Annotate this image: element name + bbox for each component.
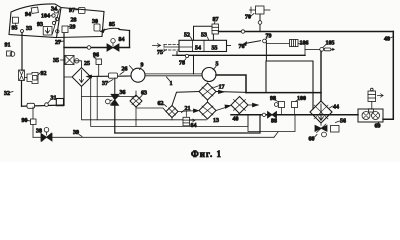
svg-text:75: 75 bbox=[157, 50, 163, 56]
fitting 31 line bbox=[27, 96, 57, 109]
sensor 100 bbox=[292, 96, 307, 108]
rod dashed 75 bbox=[164, 44, 179, 50]
long return vertical bbox=[96, 76, 98, 120]
accumulator 64 bbox=[183, 111, 197, 129]
wire 17-13 bbox=[207, 100, 209, 102]
svg-text:62: 62 bbox=[158, 101, 164, 107]
wire right riser bbox=[129, 31, 131, 48]
solenoid 35 bbox=[53, 56, 79, 65]
svg-text:88: 88 bbox=[271, 119, 277, 125]
svg-text:84: 84 bbox=[119, 37, 125, 43]
svg-text:98: 98 bbox=[270, 96, 276, 102]
svg-text:33: 33 bbox=[26, 26, 32, 32]
heat exchanger 62 bbox=[158, 101, 179, 118]
svg-text:90: 90 bbox=[22, 118, 28, 124]
wire 33 down bbox=[21, 33, 23, 71]
svg-text:55: 55 bbox=[212, 45, 218, 51]
svg-text:70: 70 bbox=[245, 15, 251, 21]
svg-text:Фиг. 1: Фиг. 1 bbox=[191, 149, 222, 159]
wire 63 to 62 bbox=[136, 107, 166, 112]
svg-text:27: 27 bbox=[55, 40, 61, 46]
svg-text:92: 92 bbox=[41, 71, 47, 77]
wire down to 90 bbox=[32, 107, 34, 137]
svg-text:53: 53 bbox=[201, 33, 207, 39]
suction arrow bbox=[87, 75, 92, 78]
valve 36 bbox=[106, 78, 126, 105]
svg-text:32: 32 bbox=[4, 91, 10, 97]
cab right panel bbox=[57, 8, 105, 38]
arrow 75 bbox=[153, 44, 167, 56]
pump 9 bbox=[130, 63, 146, 83]
svg-text:93: 93 bbox=[37, 22, 43, 28]
suction wire to pump bbox=[91, 75, 131, 77]
svg-text:85: 85 bbox=[109, 22, 115, 28]
lever 94 bbox=[25, 7, 38, 18]
svg-text:100: 100 bbox=[297, 96, 306, 102]
main return line bbox=[231, 114, 358, 116]
tank bbox=[248, 115, 295, 132]
valve 60 bbox=[309, 123, 328, 143]
wire 84 line bbox=[64, 47, 130, 49]
return wire L3 bbox=[115, 115, 260, 133]
svg-text:76: 76 bbox=[239, 44, 245, 50]
reservoir rect bbox=[266, 61, 313, 109]
box 97 bbox=[69, 8, 85, 15]
return wire L2 bbox=[91, 76, 248, 126]
wire 76 to reservoir bbox=[265, 41, 267, 61]
switch 85 bbox=[101, 22, 130, 33]
svg-text:13: 13 bbox=[213, 118, 219, 124]
label 27 bbox=[55, 40, 64, 46]
wire 35 to filter 25 bbox=[74, 61, 82, 68]
wire 63 down bbox=[135, 108, 137, 127]
wire 40 out arrow bbox=[248, 103, 258, 107]
wire bottom-left horizontal bbox=[22, 105, 65, 106]
labels 52-55 bbox=[184, 33, 218, 52]
svg-text:96: 96 bbox=[93, 53, 99, 59]
wire 62 to 17 bbox=[172, 92, 199, 106]
pedal 93 bbox=[37, 22, 52, 35]
junction box on wire 27 bbox=[56, 99, 63, 106]
compressor 69 bbox=[358, 88, 383, 129]
svg-text:36: 36 bbox=[120, 90, 126, 96]
svg-text:31: 31 bbox=[51, 96, 57, 102]
svg-text:52: 52 bbox=[184, 33, 190, 39]
governor 70 bbox=[245, 6, 270, 21]
sensor 98 bbox=[270, 96, 285, 108]
svg-text:64: 64 bbox=[191, 123, 197, 129]
node on top line bbox=[241, 30, 244, 33]
filter 13 bbox=[199, 102, 219, 124]
stub 62 bottom bbox=[171, 118, 173, 120]
muffler 56 bbox=[331, 119, 347, 133]
label 32 bbox=[4, 91, 13, 97]
main top line bbox=[219, 31, 394, 33]
wire 78 down bbox=[193, 55, 195, 74]
svg-text:25: 25 bbox=[84, 61, 90, 67]
svg-text:37: 37 bbox=[102, 81, 108, 87]
svg-text:105: 105 bbox=[326, 41, 335, 47]
svg-text:17: 17 bbox=[219, 85, 225, 91]
svg-text:54: 54 bbox=[195, 45, 201, 51]
svg-text:97: 97 bbox=[69, 8, 75, 14]
svg-text:104: 104 bbox=[41, 14, 50, 20]
svg-text:35: 35 bbox=[53, 58, 59, 64]
sensor 96 bbox=[93, 53, 102, 65]
valve 84 bbox=[107, 37, 125, 51]
sensor 91 bbox=[5, 43, 15, 57]
svg-text:48: 48 bbox=[384, 37, 390, 43]
shaft 1 bbox=[145, 74, 202, 87]
box 30 bbox=[92, 19, 100, 31]
valve 38 bbox=[36, 128, 52, 142]
wire 25 to 63 bbox=[82, 95, 137, 97]
svg-text:21: 21 bbox=[185, 106, 191, 112]
svg-text:69: 69 bbox=[375, 124, 381, 130]
svg-text:91: 91 bbox=[5, 43, 11, 49]
wire 87 feed bbox=[194, 26, 213, 40]
pneumatic cylinder 52-55 bbox=[164, 40, 231, 51]
filter 25 bbox=[72, 61, 91, 86]
box 29 bbox=[56, 25, 76, 34]
long mid line bbox=[177, 54, 305, 56]
right edge 48 bbox=[383, 32, 393, 120]
return wire L1 bbox=[82, 86, 207, 119]
svg-text:94: 94 bbox=[25, 12, 31, 18]
switch 76 bbox=[239, 34, 272, 51]
box 95 bbox=[12, 17, 19, 31]
lower duct line bbox=[246, 92, 321, 94]
svg-text:56: 56 bbox=[340, 119, 346, 125]
heater 106 bbox=[266, 40, 308, 47]
svg-text:87: 87 bbox=[213, 17, 219, 23]
cylinder bottom port bbox=[173, 52, 178, 56]
svg-text:28: 28 bbox=[71, 18, 77, 24]
heat exchanger 63 bbox=[130, 91, 147, 108]
svg-text:44: 44 bbox=[333, 105, 339, 111]
wire 36 down bbox=[114, 105, 116, 133]
wire 5 discharge bbox=[216, 75, 246, 93]
fan 40 bbox=[231, 97, 248, 123]
svg-text:30: 30 bbox=[92, 19, 98, 25]
wire 39 bottom bbox=[33, 130, 278, 137]
wire 25 left stub bbox=[64, 76, 72, 78]
motor 5 bbox=[202, 62, 219, 82]
label 34 bbox=[51, 7, 57, 13]
svg-text:1: 1 bbox=[170, 81, 173, 87]
sensor 90 bbox=[22, 118, 37, 125]
wire 96 down bbox=[98, 65, 100, 77]
wire 105 down to 44 bbox=[320, 51, 322, 101]
heater 44 bbox=[310, 101, 339, 123]
wire 70 down bbox=[258, 14, 262, 32]
svg-text:95: 95 bbox=[12, 26, 18, 32]
linkage 104 bbox=[41, 9, 59, 25]
valve 88 bbox=[262, 112, 277, 125]
cab outline bbox=[9, 4, 61, 38]
wire 13 to 40 bbox=[216, 105, 231, 111]
wire 27 vertical bbox=[63, 34, 65, 106]
heat exchanger 17 bbox=[199, 83, 225, 100]
svg-text:39: 39 bbox=[73, 130, 79, 136]
wire 62 to 13 with arrow 21 bbox=[178, 106, 199, 113]
valve 105 bbox=[298, 41, 335, 56]
wire 92 down bbox=[21, 81, 23, 107]
node 33 circle bbox=[21, 30, 24, 33]
duct wire from 17 bbox=[216, 91, 246, 94]
wire 87 to cylinder top bbox=[212, 34, 214, 40]
node on 84 line bbox=[87, 46, 91, 50]
valve body 92 bbox=[19, 70, 47, 84]
svg-text:38: 38 bbox=[36, 129, 42, 135]
svg-text:29: 29 bbox=[70, 25, 76, 31]
svg-text:40: 40 bbox=[233, 117, 239, 123]
fitting 26/37 bbox=[102, 67, 128, 88]
sensor stubs bbox=[281, 106, 283, 115]
junction 78 bbox=[179, 54, 189, 66]
pilot valve 87 bbox=[212, 17, 219, 34]
